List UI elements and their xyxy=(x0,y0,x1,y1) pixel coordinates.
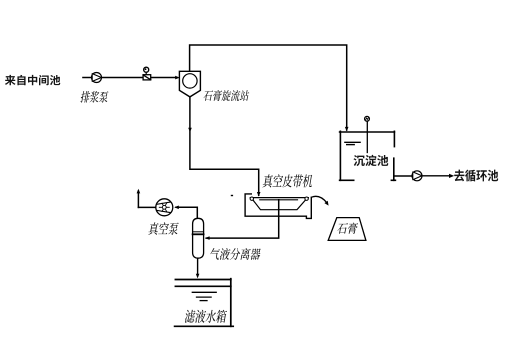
wire: cyclone overflow up and across to sedimentation pool xyxy=(190,45,347,130)
wire: separator top to vacuum pump xyxy=(176,207,197,218)
wire: feed pipe from intermediate pool to cyclone xyxy=(83,77,177,79)
arrowhead: feed onto vacuum belt xyxy=(257,192,261,197)
text: 石膏旋流站 (gypsum cyclone station label) xyxy=(203,90,250,101)
text: 石膏 (gypsum) xyxy=(337,223,359,234)
pump P2 circulation pump xyxy=(412,171,422,181)
stray dash mark left of belt label xyxy=(231,195,233,196)
filtrate water tank 滤液水箱 (double top rim, right wall, bottom) xyxy=(175,279,234,327)
wire: pump P2 to circulation pool xyxy=(422,175,450,177)
level instrument on pool (circle + dip line) xyxy=(365,116,370,152)
arrowhead: into gas-liquid separator xyxy=(205,236,210,240)
vacuum box under belt (trapezoid sides and bottom) xyxy=(253,200,305,209)
sedimentation pool 沉淀池 outline xyxy=(340,131,396,180)
text: 真空泵 (vacuum pump label) xyxy=(148,222,179,235)
vacuum pump 真空泵 symbol (circle with impeller) xyxy=(156,199,173,216)
text: 排浆泵 (slurry pump label) xyxy=(80,91,109,103)
text: 滤液水箱 (filtrate water tank label) xyxy=(184,310,227,323)
arrowhead: to circulation pool xyxy=(449,174,454,178)
wire: vent line into vacuum pump xyxy=(138,206,155,208)
text: 来自中间池 (from intermediate pool) xyxy=(5,75,60,85)
water level symbol in tank xyxy=(192,292,216,300)
gas-liquid separator vessel (vertical capsule) xyxy=(193,218,204,258)
cyclone separator 石膏旋流站 (rect body + cone + circle) xyxy=(179,71,200,97)
liquid level lines in separator xyxy=(193,232,204,235)
wire: belt centre drain down then left into separator xyxy=(206,200,279,238)
wire: separator drain down to filtrate tank xyxy=(197,258,199,276)
text: 真空皮带机 (vacuum belt machine label) xyxy=(262,174,313,187)
right belt roller xyxy=(305,197,308,200)
vent arrow up from vacuum pump xyxy=(137,191,139,207)
belt lower line xyxy=(260,199,298,201)
belt top line xyxy=(250,197,308,199)
arrowhead: into filtrate tank xyxy=(196,274,200,279)
arrowhead: feed into cyclone xyxy=(175,76,180,80)
vacuum belt machine tray (outer pan) xyxy=(245,194,311,219)
text: 去循环池 (to circulation pool) xyxy=(454,170,498,182)
flow arrowhead on underflow line xyxy=(188,128,192,133)
arrowhead: into sedimentation pool xyxy=(345,127,349,132)
pump P1 slurry pump symbol xyxy=(92,73,102,83)
left belt roller xyxy=(250,197,253,200)
curved discharge arrow from belt end to gypsum pile xyxy=(312,196,327,202)
text: 气液分离器 (gas-liquid separator label) xyxy=(209,248,262,260)
arrowhead: into vacuum pump suction xyxy=(174,206,179,210)
gypsum pile trapezoid xyxy=(328,218,366,241)
wire: cyclone underflow down, across and down to belt feed xyxy=(190,97,259,195)
valve V1 with actuator xyxy=(143,67,151,80)
water level symbol in pool xyxy=(345,142,360,144)
text: 沉淀池 (sedimentation pool label) xyxy=(354,155,389,166)
wire: pool outlet to circulation pump xyxy=(394,175,412,177)
